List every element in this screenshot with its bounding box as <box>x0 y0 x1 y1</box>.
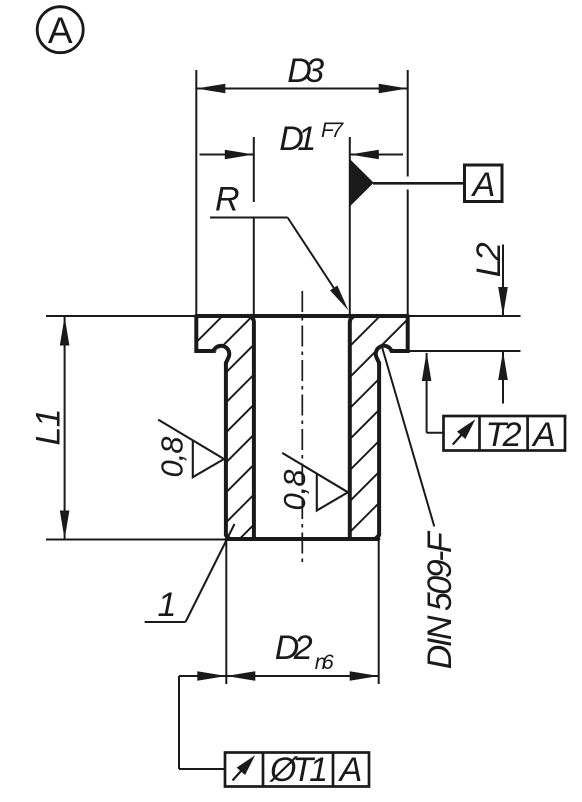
svg-text:D3: D3 <box>287 52 324 90</box>
svg-text:0,8: 0,8 <box>277 469 312 511</box>
svg-text:A: A <box>48 10 73 51</box>
svg-text:D1: D1 <box>279 120 316 158</box>
svg-text:L1: L1 <box>30 409 68 446</box>
svg-text:0,8: 0,8 <box>155 436 190 478</box>
svg-text:n6: n6 <box>315 651 334 674</box>
svg-text:T2: T2 <box>486 416 522 454</box>
svg-text:DIN 509-F: DIN 509-F <box>421 530 459 669</box>
svg-text:F7: F7 <box>321 119 344 142</box>
svg-text:1: 1 <box>158 586 177 624</box>
svg-text:L2: L2 <box>470 242 508 277</box>
svg-text:A: A <box>531 416 556 454</box>
svg-text:A: A <box>471 166 496 204</box>
svg-text:R: R <box>215 181 240 219</box>
svg-text:D2: D2 <box>275 629 313 667</box>
svg-text:ØT1: ØT1 <box>269 751 328 789</box>
svg-text:A: A <box>338 751 363 789</box>
